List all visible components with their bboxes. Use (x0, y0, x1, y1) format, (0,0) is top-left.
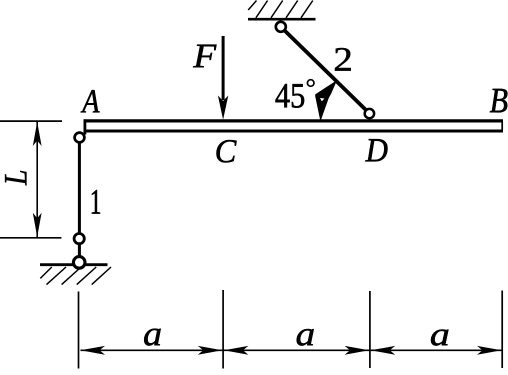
dim arrowhead left seg1 (81, 346, 106, 355)
label F (193, 45, 216, 67)
pin at A (75, 133, 85, 143)
pin upper at bottom support (74, 234, 84, 244)
label a seg2 (297, 329, 314, 346)
ceiling hatching (248, 1, 313, 18)
bottom extension line below D (369, 291, 371, 368)
beam AB bottom line (84, 130, 504, 133)
label 2 (335, 48, 351, 71)
bottom dimension line (81, 349, 502, 351)
beam AB top line (84, 119, 504, 122)
degree symbol (307, 80, 314, 87)
dimension L bottom extension line (0, 237, 61, 239)
bar 1 (vertical link below A) (78, 138, 81, 263)
dim arrowhead left seg2 (224, 346, 249, 355)
dimension L vertical line (36, 122, 38, 237)
dim arrowhead left seg3 (371, 346, 396, 355)
label A (81, 90, 100, 112)
dim arrowhead right seg3 (477, 346, 502, 355)
pin at ceiling (276, 22, 286, 32)
label B (490, 89, 508, 112)
pin lower at bottom support (73, 257, 85, 269)
45 degree angle arrow (two merged arrowheads) (316, 82, 336, 120)
force F arrow shaft (222, 36, 225, 100)
dim arrowhead right seg2 (345, 346, 370, 355)
bottom extension line below C (222, 290, 224, 369)
label C (217, 140, 237, 163)
label a seg3 (431, 330, 448, 346)
beam right end cap (501, 122, 503, 129)
dimension L down arrowhead (33, 213, 42, 237)
ground hatching (40, 267, 111, 285)
pin at D (365, 109, 374, 118)
label 45 (276, 84, 305, 108)
label a seg1 (144, 329, 161, 346)
ceiling line of top support (248, 18, 316, 21)
bar 2 (diagonal link) (281, 27, 369, 113)
label D (365, 139, 387, 161)
bottom extension line below B (501, 291, 503, 369)
dimension L top extension line (0, 120, 62, 122)
label L (rotated) (5, 171, 26, 186)
label 1 (92, 190, 100, 214)
dimension L up arrowhead (33, 122, 42, 146)
dim arrowhead right seg1 (198, 346, 223, 355)
beam left end cap (84, 119, 87, 134)
bottom extension line below support A (78, 292, 80, 369)
force F arrowhead (218, 96, 228, 120)
ground line of bottom support (40, 263, 108, 266)
